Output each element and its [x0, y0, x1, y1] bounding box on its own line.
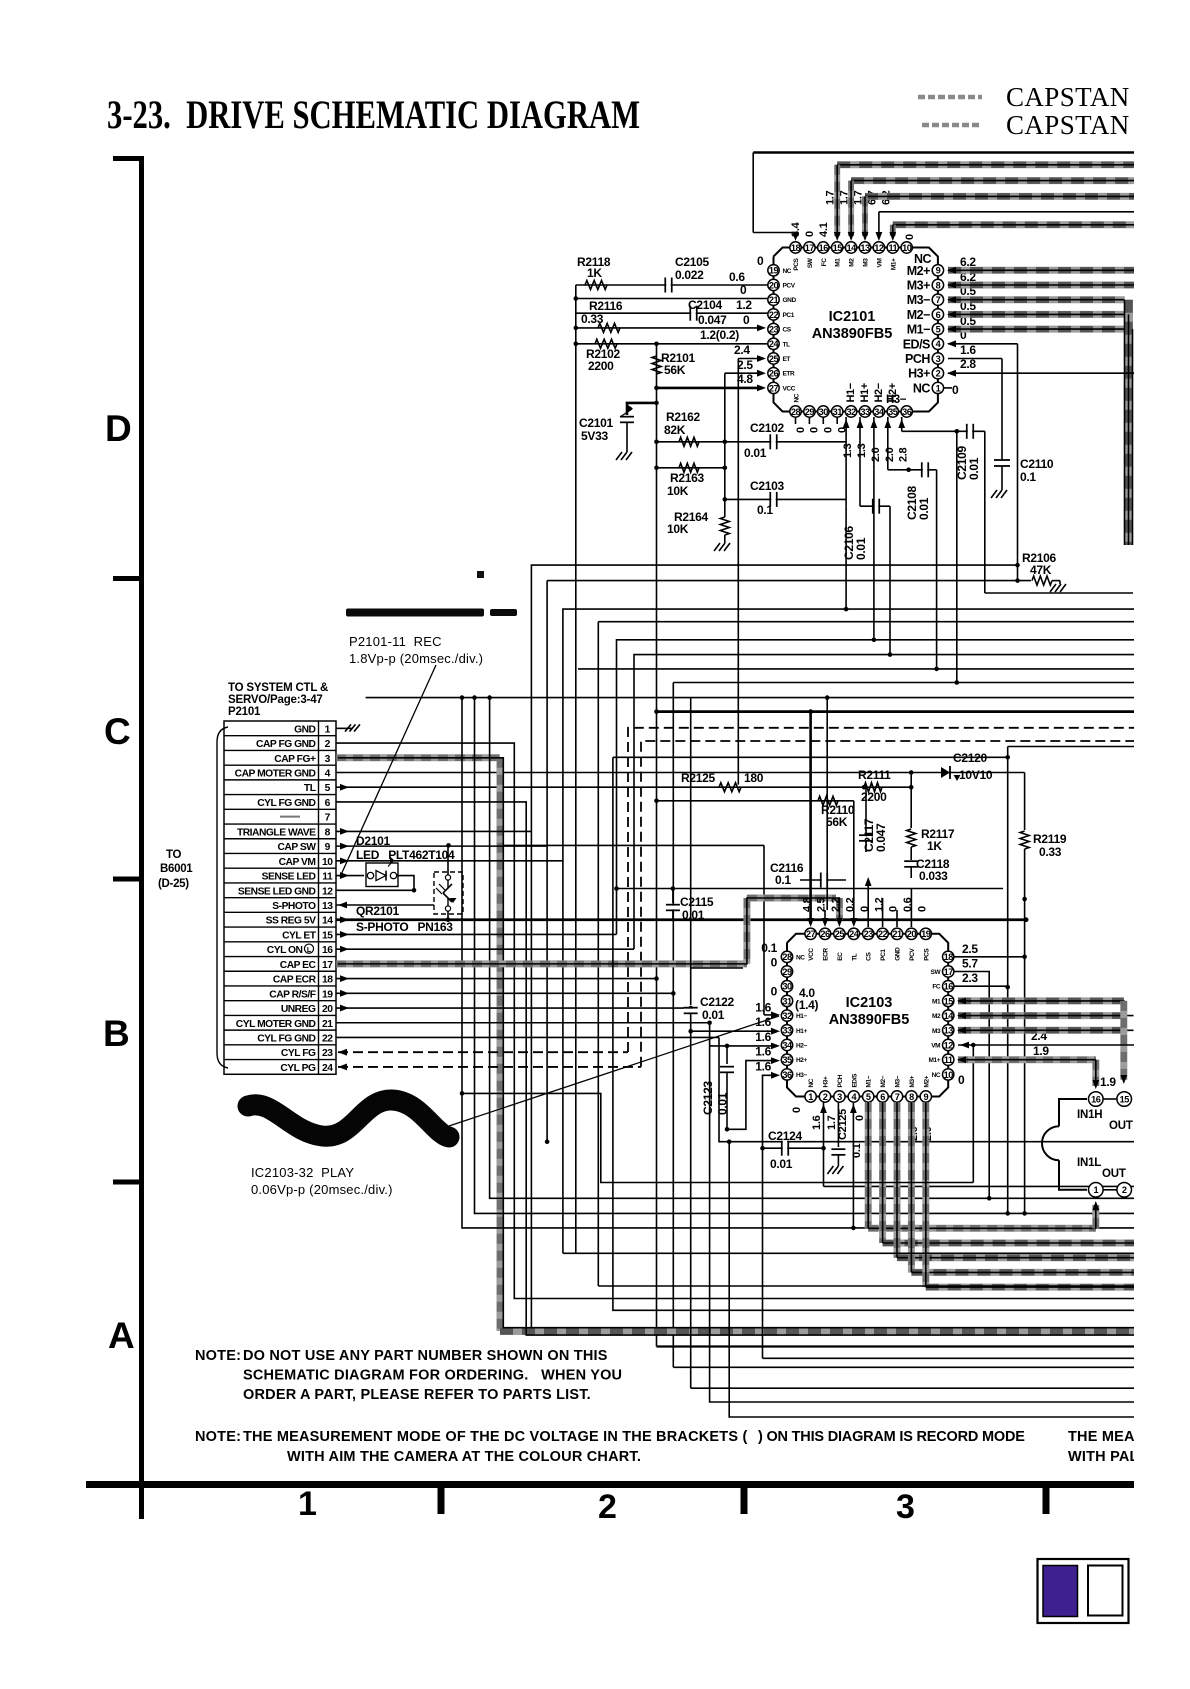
wire x762 bottom [763, 1357, 1190, 1359]
svg-text:A: A [108, 1315, 134, 1356]
IC2101 pin 29 [804, 406, 815, 417]
wire gray bus M pin8 [908, 1102, 915, 1272]
svg-text:11: 11 [944, 1055, 953, 1065]
resistor R2110 [818, 796, 838, 805]
wire pin22 stub [882, 898, 884, 927]
svg-text:C: C [104, 711, 130, 752]
svg-text:2.3: 2.3 [962, 971, 978, 985]
svg-text:D2101: D2101 [356, 834, 390, 848]
IC2103 pin 24 [848, 928, 859, 939]
wire pin17 line [954, 972, 989, 1199]
svg-text:0.01: 0.01 [917, 497, 931, 520]
wire pin27 vcc [657, 387, 764, 390]
wire x709 bottom [710, 1023, 1190, 1402]
capacitor C2123 [726, 1046, 728, 1064]
legend white square [1088, 1566, 1123, 1616]
svg-text:1K: 1K [587, 266, 602, 280]
svg-text:GND: GND [895, 947, 902, 961]
svg-text:15: 15 [833, 243, 843, 253]
gray arrow into row 17 [338, 960, 347, 967]
wire pin20 stub [910, 889, 912, 928]
IC2103 pin 27 [805, 928, 816, 939]
IC2104 pin 1 [1089, 1183, 1104, 1198]
svg-text:20: 20 [769, 280, 779, 290]
svg-text:CAP FG GND: CAP FG GND [256, 739, 316, 750]
svg-text:C2105: C2105 [675, 255, 709, 269]
IC2103 pin 4 [848, 1091, 859, 1102]
svg-text:B: B [103, 1013, 129, 1054]
svg-text:2200: 2200 [588, 359, 614, 373]
wire row18 [336, 978, 657, 980]
svg-text:4.8: 4.8 [737, 372, 753, 386]
stray mark [477, 571, 484, 578]
svg-text:180: 180 [744, 771, 764, 785]
resistor R2164 [720, 517, 729, 535]
wire row17 CAP EC gray bus [336, 960, 747, 967]
ruler tick 4 [113, 1180, 142, 1185]
IC2103 pin 2 [819, 1091, 830, 1102]
svg-text:22: 22 [322, 1033, 333, 1044]
svg-text:0.022: 0.022 [675, 268, 704, 282]
svg-text:22: 22 [769, 310, 779, 320]
svg-text:M3+: M3+ [907, 279, 930, 293]
wire dashed CYL PG return [641, 741, 1190, 1067]
svg-text:R2163: R2163 [670, 471, 704, 485]
svg-text:28: 28 [791, 407, 801, 417]
arrow row 11 [340, 872, 349, 879]
svg-text:24: 24 [849, 929, 860, 939]
svg-text:0.01: 0.01 [967, 457, 981, 480]
arrow row 15 [340, 931, 349, 938]
svg-text:2.4: 2.4 [734, 343, 750, 357]
wire drop pin12 [878, 212, 880, 233]
wire pin2 bottom run [824, 1185, 1190, 1187]
wire x576 bottom [563, 1252, 1190, 1254]
svg-text:H2+: H2+ [796, 1057, 808, 1064]
svg-text:L: L [307, 947, 312, 954]
IC2101 pin 10 [901, 242, 912, 253]
IC2101 pin 26 [768, 368, 779, 379]
wire R2110 line y800 [657, 800, 854, 802]
wire pin27 vcc drop [809, 712, 812, 924]
wire vert c2106 down [889, 506, 891, 654]
svg-text:19: 19 [921, 929, 931, 939]
capacitor C2109 [902, 430, 985, 432]
resistor R2162 [657, 441, 725, 443]
wire x673 bottom [673, 1366, 1190, 1368]
svg-text:27: 27 [806, 929, 816, 939]
wire pin4 ED/S [948, 343, 1018, 345]
op-amp IC2103 outline [787, 934, 948, 1097]
IC2101 pin 4 [932, 338, 943, 349]
wire pin18 line [954, 956, 1025, 958]
svg-text:82K: 82K [664, 423, 686, 437]
wire pin2 H3+ [948, 372, 1190, 374]
svg-text:1.2: 1.2 [736, 298, 752, 312]
svg-text:TRIANGLE WAVE: TRIANGLE WAVE [237, 827, 316, 838]
wire bus vertical right [1124, 300, 1133, 545]
svg-text:1: 1 [808, 1092, 813, 1102]
wire vert x738 [737, 359, 739, 785]
ground row1 [345, 724, 351, 731]
ground R2164 [714, 543, 720, 551]
IC2103 pin 19 [920, 928, 931, 939]
wire LED out [397, 876, 414, 891]
wire bus capstan top 1 [837, 161, 1190, 168]
svg-text:M1−: M1− [907, 323, 930, 337]
svg-text:3: 3 [936, 354, 941, 364]
svg-text:R2116: R2116 [589, 299, 623, 313]
svg-text:36: 36 [902, 407, 912, 417]
svg-text:VCC: VCC [783, 385, 796, 392]
svg-text:23: 23 [322, 1048, 333, 1059]
capstan legend line 1 [918, 95, 982, 100]
svg-text:0: 0 [804, 231, 816, 237]
svg-text:ETR: ETR [783, 371, 796, 378]
IC2101 pin 27 [768, 382, 779, 393]
svg-text:NC: NC [794, 393, 801, 402]
svg-text:ECR: ECR [823, 948, 830, 961]
svg-text:12: 12 [944, 1040, 954, 1050]
wire pin16 line [954, 985, 1008, 987]
svg-text:0.1: 0.1 [775, 873, 791, 887]
IC2103 pin 3 [834, 1091, 845, 1102]
wire gray riser to IC2104 pin1 [1092, 1205, 1099, 1228]
svg-text:5: 5 [325, 783, 331, 794]
svg-text:8: 8 [909, 1092, 914, 1102]
svg-text:C2101: C2101 [579, 416, 613, 430]
svg-text:0: 0 [771, 956, 778, 970]
IC2101 pin 13 [859, 242, 870, 253]
wire fan y654 [634, 655, 1190, 949]
wire x762 down [762, 1148, 764, 1358]
IC2101 pin 18 [790, 242, 801, 253]
IC2101 pin 22 [768, 309, 779, 320]
wire x598 bottom [598, 1285, 1190, 1287]
ground C2101 [616, 452, 622, 460]
IC2103 pin 20 [906, 928, 917, 939]
svg-text:M2: M2 [932, 1013, 941, 1020]
svg-text:33: 33 [860, 407, 870, 417]
wire x656 bottom [657, 1345, 1190, 1347]
IC2101 pin 25 [768, 353, 779, 364]
svg-text:0.1: 0.1 [1020, 470, 1036, 484]
svg-text:2: 2 [936, 369, 941, 379]
svg-text:28: 28 [782, 952, 792, 962]
svg-text:0: 0 [791, 1107, 803, 1113]
svg-text:10: 10 [944, 1070, 954, 1080]
wire pin1 stub [944, 387, 952, 389]
svg-text:0: 0 [854, 1115, 866, 1121]
capacitor C2103 [725, 498, 846, 500]
resistor R2119 [1024, 773, 1026, 831]
IC2103 pin 17 [943, 966, 954, 977]
wire fan y639 [617, 640, 1190, 935]
svg-text:23: 23 [769, 325, 779, 335]
wire pin33 line [691, 1030, 777, 1032]
svg-text:C2125: C2125 [837, 1109, 849, 1140]
svg-text:30: 30 [782, 982, 792, 992]
svg-text:18: 18 [791, 243, 801, 253]
svg-text:PCV: PCV [783, 283, 796, 290]
wire vert pin34 down [873, 470, 875, 640]
svg-text:P2101: P2101 [228, 706, 261, 718]
svg-text:CYL ET: CYL ET [282, 930, 317, 941]
legend outer box [1038, 1559, 1129, 1623]
wire pin21 line [576, 298, 768, 300]
IC2103 pin 29 [781, 966, 792, 977]
arrow row 9 [340, 843, 349, 850]
svg-text:C2124: C2124 [768, 1129, 802, 1143]
svg-text:1.3: 1.3 [856, 443, 868, 458]
IC2103 pin 11 [943, 1054, 954, 1065]
IC2101 pin 17 [804, 242, 815, 253]
svg-text:31: 31 [833, 407, 843, 417]
arrow row 20 [340, 1005, 349, 1012]
IC2103 pin 31 [781, 995, 792, 1006]
IC2101 pin 23 [768, 323, 779, 334]
svg-text:M3−: M3− [907, 293, 930, 307]
svg-text:0: 0 [958, 1073, 965, 1087]
wire dashed CYL FG return [628, 728, 1190, 1052]
svg-text:2.2: 2.2 [830, 897, 842, 912]
wire frame to pin18 [753, 233, 795, 238]
resistor R2118 [585, 281, 607, 290]
wire bus capstan top 2 [851, 177, 1190, 184]
wire pin23 CS up arrow [867, 880, 869, 927]
wire gray bus M3 pin13 [958, 1027, 1124, 1034]
svg-text:17: 17 [805, 243, 815, 253]
svg-text:0.01: 0.01 [702, 1008, 725, 1022]
wire vert x598 [597, 622, 599, 1286]
svg-text:H3+: H3+ [908, 367, 930, 381]
IC2103 pin 21 [891, 928, 902, 939]
svg-text:0.6: 0.6 [729, 270, 745, 284]
arrow into row 23 [338, 1049, 347, 1056]
svg-text:M2−: M2− [907, 308, 930, 322]
svg-text:10K: 10K [667, 484, 689, 498]
wire vert x1017 [1017, 344, 1019, 581]
IC2101 pin 6 [932, 309, 943, 320]
svg-text:R2111: R2111 [858, 768, 891, 782]
wire QR bottom to row14 [447, 911, 449, 920]
svg-text:0.1: 0.1 [757, 503, 773, 517]
IC2101 pin 32 [845, 406, 856, 417]
IC2103 pin 9 [920, 1091, 931, 1102]
svg-text:PCH: PCH [905, 352, 930, 366]
svg-text:CS: CS [866, 952, 873, 961]
wire bold rail y711 [657, 710, 1190, 713]
svg-text:1.6: 1.6 [755, 1015, 771, 1029]
IC2101 pin 31 [832, 406, 843, 417]
wire row13 [336, 904, 434, 906]
svg-text:CAP EC: CAP EC [280, 960, 317, 971]
svg-text:QR2101: QR2101 [356, 904, 400, 918]
svg-text:C2120: C2120 [953, 751, 987, 765]
svg-text:11: 11 [888, 243, 897, 253]
wire row15 [336, 933, 617, 935]
svg-text:D: D [105, 408, 131, 449]
wire gray bus M pin5 [865, 1102, 872, 1228]
arrow into row 24 [338, 1064, 347, 1071]
svg-text:11: 11 [322, 872, 333, 883]
svg-text:LED PLT462T104: LED PLT462T104 [356, 848, 455, 862]
capacitor C2104 [689, 306, 691, 321]
svg-text:1.6: 1.6 [755, 1030, 771, 1044]
svg-text:IC2103-32 PLAY: IC2103-32 PLAY [251, 1165, 354, 1180]
svg-text:6: 6 [325, 798, 331, 809]
wire row22 down [719, 1037, 1190, 1141]
svg-text:7: 7 [936, 295, 941, 305]
wire bus capstan top 3 [865, 193, 1190, 200]
IC2101 pin 20 [768, 279, 779, 290]
wire row2 [336, 743, 1190, 1298]
wire row10 [336, 860, 563, 862]
wire vert c2109 down [956, 431, 958, 682]
svg-text:M1: M1 [932, 998, 941, 1005]
svg-text:ORDER A PART, PLEASE REFER TO: ORDER A PART, PLEASE REFER TO PARTS LIST… [243, 1387, 591, 1403]
svg-text:18: 18 [944, 952, 954, 962]
wire drop pin34 [873, 417, 875, 470]
svg-text:14: 14 [944, 1011, 955, 1021]
svg-text:10: 10 [322, 857, 333, 868]
IC2101 pin 21 [768, 294, 779, 305]
svg-text:5: 5 [936, 325, 941, 335]
resistor R2111 [864, 783, 882, 792]
IC2104 pin 15 [1117, 1092, 1132, 1107]
svg-text:TL: TL [851, 953, 858, 961]
wire pin36 elbow [763, 1075, 778, 1148]
op-amp IC2104 outline [1059, 1099, 1087, 1126]
wire fan y580 [546, 581, 548, 1142]
svg-text:M3: M3 [932, 1028, 941, 1035]
wire pin26 [725, 372, 763, 374]
svg-text:CAP MOTER GND: CAP MOTER GND [235, 769, 316, 780]
svg-text:TL: TL [304, 783, 316, 794]
svg-text:0: 0 [904, 234, 916, 240]
bottom ruler tick 2 [741, 1484, 748, 1514]
svg-text:16: 16 [944, 982, 954, 992]
svg-text:0: 0 [888, 906, 900, 912]
wire row11 to LED [336, 875, 364, 877]
svg-text:0.047: 0.047 [874, 823, 888, 852]
svg-text:17: 17 [322, 960, 333, 971]
resistor R2101 [652, 356, 661, 374]
svg-text:2.8: 2.8 [898, 447, 910, 462]
IC2103 pin 26 [819, 928, 830, 939]
wire pin22 line [576, 312, 768, 314]
wire pin21 stub [896, 910, 898, 927]
frame left border [752, 153, 754, 233]
wire row20 [336, 1007, 691, 1009]
svg-text:THE MEASUREMENT MODE OF THE DC: THE MEASUREMENT MODE OF THE DC VOLTAGE I… [243, 1429, 747, 1445]
wire bus M2+ pin9 [948, 267, 1190, 274]
svg-text:4.1: 4.1 [818, 222, 830, 237]
IC2103 pin 33 [781, 1025, 792, 1036]
wire vert x656 [656, 344, 658, 1347]
svg-text:7: 7 [895, 1092, 900, 1102]
wire gray bus M pin6 [879, 1102, 886, 1243]
wire drop pin15 [834, 165, 840, 236]
diode C2120 [941, 767, 950, 778]
capacitor C2108 [888, 469, 937, 471]
capacitor C2117 [865, 787, 867, 834]
svg-text:0: 0 [795, 427, 807, 433]
left ruler line [139, 156, 144, 1519]
svg-text:CAP ECR: CAP ECR [273, 975, 317, 986]
wire bus M2- pin6 [948, 311, 1129, 318]
wire y888 [617, 888, 1004, 890]
IC2103 pin 22 [877, 928, 888, 939]
ground C2125 [827, 1166, 833, 1174]
svg-text:IN1H: IN1H [1077, 1109, 1102, 1121]
svg-text:SCHEMATIC DIAGRAM FOR ORDERING: SCHEMATIC DIAGRAM FOR ORDERING. WHEN YOU [243, 1368, 622, 1384]
svg-text:PCS: PCS [793, 257, 800, 270]
svg-text:2.0: 2.0 [884, 447, 896, 462]
svg-text:IC2103: IC2103 [846, 995, 893, 1011]
capacitor C2125 [831, 1148, 845, 1150]
wire row10 branch down [475, 698, 1190, 1214]
svg-text:NC: NC [796, 954, 805, 961]
svg-text:S-PHOTO: S-PHOTO [272, 901, 316, 912]
svg-text:21: 21 [892, 929, 902, 939]
IC2103 pin 15 [943, 995, 954, 1006]
svg-text:0.1: 0.1 [761, 941, 777, 955]
svg-text:24: 24 [769, 339, 780, 349]
IC2101 pin 35 [887, 406, 898, 417]
IC2101 pin 5 [932, 323, 943, 334]
svg-text:VM: VM [876, 259, 883, 268]
IC2103 pin 7 [891, 1091, 902, 1102]
svg-text:0: 0 [823, 427, 835, 433]
svg-text:M2+: M2+ [923, 1075, 930, 1087]
svg-text:12: 12 [874, 243, 884, 253]
ground C2110 [991, 490, 997, 498]
callout line PLAY to pin32 [449, 1016, 779, 1126]
svg-text:2: 2 [325, 739, 331, 750]
svg-text:1.2: 1.2 [873, 897, 885, 912]
svg-text:27: 27 [769, 383, 779, 393]
svg-text:1.8Vp-p (20msec./div.): 1.8Vp-p (20msec./div.) [349, 651, 483, 666]
wire row14 SS REG 5V rail [336, 918, 1026, 921]
wire drop pin11 [890, 225, 896, 236]
svg-text:R2125: R2125 [681, 771, 715, 785]
wire fan y682 [673, 682, 1190, 684]
svg-text:31: 31 [782, 996, 792, 1006]
capacitor C2110 [1001, 359, 1003, 460]
IC2101 pin 36 [901, 406, 912, 417]
svg-text:VCC: VCC [808, 948, 815, 961]
svg-text:1K: 1K [927, 839, 942, 853]
ruler tick 2 [113, 576, 142, 581]
IC2103 pin 36 [781, 1069, 792, 1080]
svg-text:IN1L: IN1L [1077, 1157, 1101, 1169]
capacitor C2105 [664, 278, 666, 293]
wire pin23 line [576, 327, 762, 329]
svg-text:S-PHOTO PN163: S-PHOTO PN163 [356, 920, 453, 934]
svg-text:SW: SW [931, 969, 942, 976]
capacitor C2115 [672, 889, 674, 904]
IC2103 pin 34 [781, 1039, 792, 1050]
svg-text:23: 23 [864, 929, 874, 939]
svg-text:CAP R/S/F: CAP R/S/F [269, 989, 315, 1000]
svg-text:ED/S: ED/S [851, 1073, 858, 1088]
wire branch x462 [462, 698, 1190, 1228]
svg-text:M2−: M2− [880, 1075, 887, 1087]
IC2101 pin 34 [873, 406, 884, 417]
svg-text:2: 2 [1122, 1185, 1127, 1195]
svg-text:PCV: PCV [909, 948, 916, 961]
